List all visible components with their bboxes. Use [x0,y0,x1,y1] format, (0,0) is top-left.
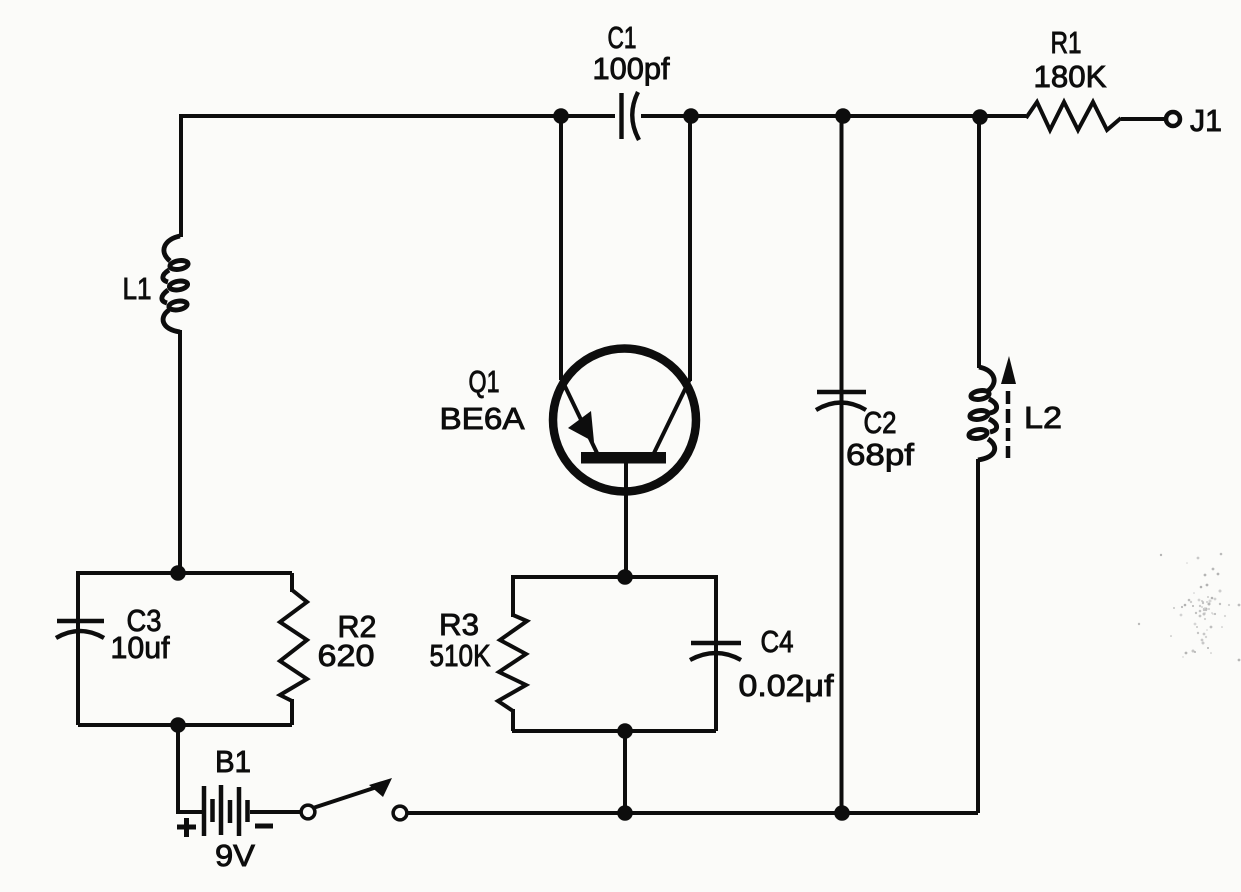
resistor R1 [1026,102,1121,130]
battery B1 [204,785,248,836]
node dot C2 branch / bottom bus [834,805,850,821]
wire C4 branch vertical [714,575,718,731]
node dot R3/C4 branch / bottom bus [617,805,633,821]
switch S1 left contact [301,805,315,819]
svg-text:B1: B1 [215,744,251,779]
wire battery to switch [250,810,300,814]
wire C3 branch vertical [76,571,80,725]
svg-text:180K: 180K [1034,59,1107,94]
switch S1 right contact [393,806,407,820]
wire L2 branch lower [976,459,980,813]
svg-text:C1: C1 [608,20,637,55]
wire bottom bus [406,811,978,815]
svg-text:BE6A: BE6A [440,401,525,436]
wire left vertical lower (L1 to C3/R2 block) [178,330,182,574]
node dot Q1 right lead / top rail [683,108,699,124]
switch S1 arm [313,786,380,808]
switch S1 arm arrowhead [369,778,392,797]
label battery plus [177,818,196,837]
wire R1 to J1 [1121,117,1165,121]
wire left vertical top (to L1) [179,114,183,237]
capacitor C4 [690,643,741,660]
wire R3/C4 block top rail [512,575,716,579]
capacitor C3 [56,621,104,638]
svg-text:R3: R3 [439,607,479,642]
wire top rail left [181,114,615,118]
node dot R3/C4 block top [617,569,633,585]
capacitor C1 [622,92,640,140]
svg-text:C2: C2 [864,405,897,440]
node dot C2 branch / top rail [835,108,851,124]
svg-text:J1: J1 [1190,103,1222,138]
svg-text:68pf: 68pf [846,437,914,472]
svg-text:R1: R1 [1051,25,1082,60]
connector J1 (open terminal) [1166,112,1180,126]
node dot block top / left wire [170,565,186,581]
svg-text:9V: 9V [215,838,255,873]
resistor R3 [498,575,527,731]
resistor R2 [280,573,307,725]
L2 adjustment arrow [1001,356,1016,384]
svg-text:L1: L1 [123,271,152,306]
wire R3/C4 block bottom rail [512,729,716,733]
wire top rail right [641,114,1026,118]
capacitor C2 [816,392,866,410]
wire C2 branch vertical [840,116,844,813]
node dot Q1 left lead / top rail [553,108,569,124]
node dot L2 branch / top rail [972,109,988,125]
inductor L1 [162,236,189,332]
wire C3/R2 block bottom rail [78,723,292,727]
svg-text:100pf: 100pf [593,51,670,86]
svg-text:510K: 510K [430,638,491,673]
wire C3/R2 block top rail [78,571,292,575]
svg-text:0.02μf: 0.02μf [739,668,834,703]
svg-text:C4: C4 [761,624,794,659]
L2 dashed adjustment line [1006,391,1011,458]
node dot R3/C4 block bottom [617,723,633,739]
svg-text:620: 620 [318,638,375,673]
inductor L2 [968,367,996,460]
label battery minus [255,824,273,829]
transistor Q1 [553,116,696,578]
wire L2 branch upper [977,117,981,368]
svg-text:10uf: 10uf [111,630,170,665]
svg-text:L2: L2 [1024,400,1062,435]
node dot block bottom / battery wire [170,717,186,733]
svg-text:Q1: Q1 [469,364,500,399]
wire battery feed [176,724,202,812]
wire R3/C4 block to bottom bus [623,731,627,813]
